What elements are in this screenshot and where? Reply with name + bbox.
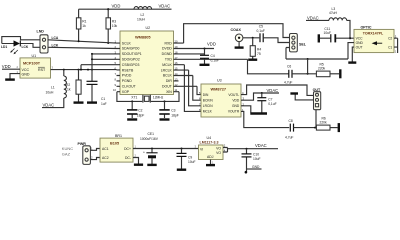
svg-text:18pF: 18pF <box>171 113 179 117</box>
svg-text:VDAC: VDAC <box>159 4 171 9</box>
svg-text:1k: 1k <box>67 88 71 92</box>
svg-text:12: 12 <box>175 83 178 87</box>
capacitor C3 18pF <box>159 101 179 119</box>
wire U3 VDD to VDAC <box>241 93 279 100</box>
resistor R2 <box>66 70 84 103</box>
resistor R6 <box>316 116 337 130</box>
svg-text:C3: C3 <box>171 109 175 113</box>
svg-text:10k: 10k <box>112 24 118 28</box>
svg-text:VDAC: VDAC <box>267 88 279 93</box>
svg-text:TXD: TXD <box>165 58 172 62</box>
svg-text:VDAC: VDAC <box>255 143 267 148</box>
crystal XT1 <box>117 92 179 103</box>
capacitor C5 <box>257 25 290 43</box>
svg-text:C1: C1 <box>388 45 392 49</box>
svg-text:LRCIN: LRCIN <box>203 104 213 108</box>
svg-text:SDA/GPO0: SDA/GPO0 <box>122 47 140 51</box>
svg-text:VDD: VDD <box>232 99 240 103</box>
svg-text:BCLK: BCLK <box>163 74 173 78</box>
svg-text:18pF: 18pF <box>137 113 145 117</box>
resistor R4 <box>248 38 261 60</box>
wire GPO straps to U2 <box>81 54 117 70</box>
node junction dots on RST <box>87 69 89 71</box>
svg-text:L1: L1 <box>51 86 55 90</box>
IC U3 WM8727 <box>201 79 241 117</box>
svg-text:VDD: VDD <box>112 4 121 9</box>
wire RXD to top rail <box>184 24 290 43</box>
svg-text:LCA: LCA <box>52 36 59 40</box>
svg-text:C10: C10 <box>253 152 259 156</box>
svg-text:VO: VO <box>216 151 221 155</box>
wire RST net <box>51 69 117 71</box>
wire VDD to U1 VCC <box>2 68 20 70</box>
capacitor C2 18pF <box>127 101 144 119</box>
svg-text:R4: R4 <box>257 48 261 52</box>
svg-text:SCLK: SCLK <box>122 41 132 45</box>
svg-text:15: 15 <box>175 67 178 71</box>
capacitor CE1 electrolytic <box>140 132 159 165</box>
svg-text:GND: GND <box>232 104 240 108</box>
svg-text:10uH: 10uH <box>137 17 146 21</box>
svg-text:C2: C2 <box>138 109 142 113</box>
capacitor C6 <box>284 64 316 84</box>
svg-text:1uF: 1uF <box>101 102 107 106</box>
svg-text:220k: 220k <box>320 121 328 125</box>
svg-text:LND: LND <box>37 30 45 34</box>
svg-text:MCP100T: MCP100T <box>23 62 41 66</box>
svg-text:VOUTR: VOUTR <box>228 110 240 114</box>
svg-text:12MHz: 12MHz <box>153 96 164 100</box>
svg-text:LCK: LCK <box>22 45 29 49</box>
svg-text:KUNC: KUNC <box>62 146 73 151</box>
connector PWR <box>78 142 101 164</box>
svg-text:DC-: DC- <box>125 156 131 160</box>
ground OPTIC OUT pin <box>352 47 354 62</box>
wire I2S bus BCLK <box>193 76 201 101</box>
svg-text:GAZ: GAZ <box>62 151 71 156</box>
svg-text:VDD: VDD <box>2 64 11 69</box>
svg-text:OUT: OUT <box>356 45 363 49</box>
svg-text:75: 75 <box>257 52 261 56</box>
svg-text:MCLK: MCLK <box>203 110 213 114</box>
svg-text:VDD: VDD <box>207 42 216 47</box>
wire L3 to OPTIC VCC <box>347 20 354 38</box>
svg-text:DGND: DGND <box>162 52 173 56</box>
svg-text:RSETB: RSETB <box>122 68 134 72</box>
svg-text:4,7uF: 4,7uF <box>284 80 292 84</box>
svg-text:C7: C7 <box>268 97 272 101</box>
resistor R3 <box>106 9 118 44</box>
svg-text:GND: GND <box>356 41 364 45</box>
svg-text:VDAC: VDAC <box>43 102 55 107</box>
IC OPTIC TORX147PL <box>354 25 394 52</box>
svg-text:10: 10 <box>113 88 116 92</box>
svg-text:VCC: VCC <box>22 68 30 72</box>
wire U4 VO to VDAC <box>223 148 278 153</box>
svg-text:19: 19 <box>175 45 178 49</box>
svg-text:16: 16 <box>175 61 178 65</box>
wire OPTIC GND pin <box>348 43 354 59</box>
svg-text:PGND: PGND <box>122 79 132 83</box>
svg-text:4,7uF: 4,7uF <box>285 136 293 140</box>
wire I2S bus DOUT <box>197 86 201 94</box>
U2 pin stubs right <box>174 43 248 92</box>
svg-text:DIN: DIN <box>203 93 209 97</box>
svg-text:C1: C1 <box>101 97 105 101</box>
svg-text:VOUTL: VOUTL <box>228 93 239 97</box>
svg-text:C6: C6 <box>287 64 291 68</box>
svg-text:PVDD: PVDD <box>122 74 132 78</box>
connector OUT <box>313 88 321 127</box>
svg-text:AC2: AC2 <box>102 156 109 160</box>
inductor L1 <box>42 70 66 108</box>
svg-text:+: + <box>143 151 145 155</box>
node VDD junction <box>107 8 109 10</box>
capacitor C7 <box>257 93 276 113</box>
capacitor C10 <box>242 148 261 173</box>
U2 pin stubs left <box>117 43 121 92</box>
ground BR1 DC- <box>133 158 139 164</box>
ground OUT pin2 <box>295 94 313 100</box>
svg-text:LD1: LD1 <box>1 45 7 49</box>
U2 left pin labels <box>122 41 142 94</box>
svg-text:WM8727: WM8727 <box>211 87 227 92</box>
svg-text:BR1: BR1 <box>115 134 122 138</box>
svg-text:DC+: DC+ <box>124 147 131 151</box>
LED LD1 <box>1 37 40 55</box>
ground R5 <box>339 69 341 78</box>
svg-text:BCKIN: BCKIN <box>203 99 214 103</box>
svg-text:C8: C8 <box>289 119 293 123</box>
svg-text:SDOUT/GP1: SDOUT/GP1 <box>122 52 142 56</box>
svg-text:17: 17 <box>175 56 178 60</box>
svg-text:XOP: XOP <box>122 90 130 94</box>
svg-text:U3: U3 <box>217 79 222 83</box>
svg-text:U1: U1 <box>32 54 37 58</box>
svg-text:B105: B105 <box>110 142 119 146</box>
svg-text:DIR: DIR <box>166 79 172 83</box>
svg-text:220k: 220k <box>318 67 326 71</box>
svg-text:XT1: XT1 <box>131 96 137 100</box>
svg-text:DVDD: DVDD <box>162 47 172 51</box>
ground U4 ADJ <box>210 160 212 165</box>
svg-text:AC1: AC1 <box>102 147 109 151</box>
svg-text:TORX147PL: TORX147PL <box>363 31 384 35</box>
wire I2S bus MCLK <box>184 65 201 112</box>
svg-text:VO: VO <box>216 146 221 150</box>
svg-text:10uF: 10uF <box>324 31 332 35</box>
wire U3 VOUTL to OUT pin1 <box>241 85 314 95</box>
U2 right pin labels <box>161 41 173 94</box>
node junction OUT pin3 <box>314 127 316 129</box>
svg-text:SEL: SEL <box>299 42 307 46</box>
svg-text:LCK: LCK <box>52 43 59 47</box>
inductor L3 <box>329 7 347 21</box>
svg-text:OPTIC: OPTIC <box>361 25 372 29</box>
svg-text:LRCLK: LRCLK <box>161 68 173 72</box>
svg-text:R2: R2 <box>66 83 70 87</box>
capacitor C8 <box>285 119 316 140</box>
svg-text:R1: R1 <box>82 20 86 24</box>
resistor R5 <box>316 62 339 76</box>
IC U1 MCP100T <box>20 54 51 78</box>
svg-text:C2: C2 <box>388 36 392 40</box>
svg-text:C4: C4 <box>211 54 215 58</box>
ground U1 GND <box>5 70 20 80</box>
svg-text:XIN: XIN <box>166 90 172 94</box>
svg-text:1k: 1k <box>82 24 86 28</box>
svg-text:CLKOUT: CLKOUT <box>122 85 137 89</box>
svg-text:LM1117-3.3: LM1117-3.3 <box>200 141 219 145</box>
wire OPTIC case pins <box>394 38 398 53</box>
ground U3 GND / C7 <box>241 106 251 113</box>
svg-text:WM8805: WM8805 <box>135 35 151 40</box>
svg-text:14: 14 <box>175 72 178 76</box>
IC U4 LM1117-3.3 <box>195 136 224 159</box>
ground R6 <box>338 123 340 132</box>
svg-text:VDAC: VDAC <box>307 15 319 20</box>
connector SEL <box>286 34 307 60</box>
svg-text:GND: GND <box>252 165 260 169</box>
svg-text:C9: C9 <box>188 156 192 160</box>
svg-text:0,1uF: 0,1uF <box>211 59 219 63</box>
wire net LCA <box>48 40 117 43</box>
wire U3 VOUTR to C8 line <box>241 111 289 127</box>
svg-text:R3: R3 <box>112 20 116 24</box>
svg-text:ADJ: ADJ <box>207 155 214 159</box>
svg-text:GND: GND <box>22 72 30 76</box>
connector LND <box>37 30 49 53</box>
svg-text:RST: RST <box>38 68 46 72</box>
svg-text:MCLK: MCLK <box>162 63 172 67</box>
capacitor C1 <box>87 54 107 106</box>
wire net LCK <box>48 47 117 48</box>
svg-text:VI: VI <box>200 148 203 152</box>
svg-text:0,1uF: 0,1uF <box>268 102 276 106</box>
connector COAX <box>231 28 260 47</box>
svg-text:10uF: 10uF <box>188 160 196 164</box>
wire VDD top rail <box>79 8 172 10</box>
wire optic line y59 <box>286 58 348 60</box>
svg-text:0,1uF: 0,1uF <box>257 29 265 33</box>
svg-text:CSB/GPO3: CSB/GPO3 <box>122 63 140 67</box>
svg-text:U4: U4 <box>207 136 212 140</box>
svg-text:COAX: COAX <box>231 28 242 32</box>
svg-text:13: 13 <box>175 77 178 81</box>
svg-text:CE1: CE1 <box>148 132 155 136</box>
svg-text:VCC: VCC <box>356 36 364 40</box>
node GND label <box>245 171 248 174</box>
IC U2 WM8805 <box>120 26 174 95</box>
inductor L2 <box>134 7 152 22</box>
svg-text:U2: U2 <box>146 26 151 30</box>
svg-text:10uF: 10uF <box>253 157 261 161</box>
svg-text:SDO/GPO2: SDO/GPO2 <box>122 58 140 62</box>
resistor R1 <box>76 9 86 41</box>
wire I2S bus LRCLK <box>189 70 201 106</box>
wire TXD riser <box>248 59 289 74</box>
svg-text:18: 18 <box>175 50 178 54</box>
svg-text:L3: L3 <box>332 7 336 11</box>
IC BR1 B105 <box>100 134 133 162</box>
node junction C6/R5 <box>307 73 309 75</box>
svg-text:20: 20 <box>175 40 178 44</box>
capacitor C9 <box>177 148 196 170</box>
wire DC+ rail <box>133 148 199 150</box>
svg-text:1000uF/16V: 1000uF/16V <box>140 137 159 141</box>
capacitor C11 <box>319 27 350 43</box>
svg-text:DOUT: DOUT <box>162 85 173 89</box>
svg-text:RXD: RXD <box>165 41 173 45</box>
svg-text:10uH: 10uH <box>46 91 55 95</box>
node junction R1/LCA <box>78 40 80 42</box>
node junction R4 <box>252 37 254 39</box>
capacitor C4 <box>200 49 219 65</box>
svg-text:47uH: 47uH <box>329 11 338 15</box>
